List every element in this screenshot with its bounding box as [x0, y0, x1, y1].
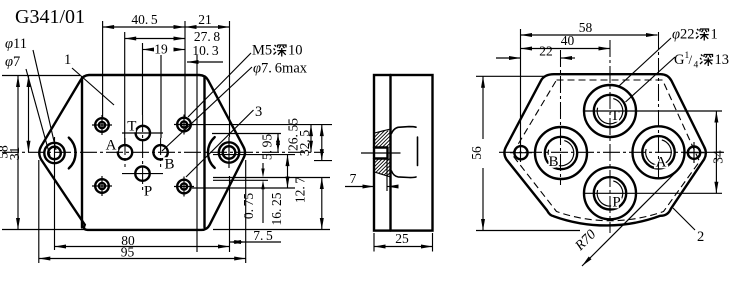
dimension 5.95 [260, 134, 281, 161]
svg-text:21: 21 [198, 12, 212, 27]
port T left view [136, 126, 150, 140]
dashed subplate outline [512, 80, 700, 221]
left view plate outline [39, 75, 245, 230]
right wing boss arc [208, 137, 215, 168]
break line upper [392, 127, 417, 134]
middle view pad line [389, 75, 391, 231]
dimension 22 right view [496, 44, 575, 61]
A vertical centerline [658, 32, 660, 182]
P port horizontal centerline [122, 173, 163, 175]
right wing mounting hole [219, 142, 239, 162]
pad left edge [81, 78, 83, 228]
svg-text:34: 34 [711, 150, 726, 164]
extension line bottom edge left [2, 229, 84, 231]
svg-text:B: B [548, 154, 558, 170]
svg-text:3: 3 [255, 104, 262, 120]
port B right view [535, 127, 587, 179]
break line lower [392, 171, 417, 178]
left wing boss arc [69, 138, 76, 169]
middle view section boundaries [375, 129, 391, 177]
svg-text:7: 7 [350, 171, 357, 186]
svg-text:M5: M5 [252, 43, 272, 59]
port A left view [118, 145, 132, 159]
vertical centerline T-P [142, 115, 144, 190]
dimension 0.75 [241, 163, 265, 223]
svg-text:12. 7: 12. 7 [293, 177, 308, 204]
dimension 19 [143, 42, 186, 57]
svg-text:31: 31 [7, 147, 22, 161]
bolt hole bottom-left [92, 176, 112, 196]
wing hole vertical centerline left [54, 137, 56, 250]
svg-text:A: A [656, 155, 667, 171]
dimension 80 [55, 233, 230, 249]
svg-text:G341/01: G341/01 [15, 6, 85, 28]
svg-text:A: A [106, 138, 117, 154]
svg-text:φ11: φ11 [5, 36, 27, 52]
svg-text:T: T [610, 108, 619, 124]
svg-text:G: G [674, 52, 685, 68]
svg-text:5. 95: 5. 95 [260, 134, 275, 161]
small hole left right-view [510, 146, 532, 159]
middle view centerline [361, 152, 401, 154]
dimension 25 [374, 231, 433, 252]
right view horizontal centerline [499, 151, 726, 153]
dimension 58 right view [521, 20, 658, 37]
svg-text:27. 8: 27. 8 [194, 29, 221, 44]
B vertical centerline [560, 50, 562, 185]
dimension 12.7 [293, 177, 324, 230]
dimension 21 [185, 12, 230, 29]
break line vertical [417, 137, 419, 166]
B port vertical centerline [160, 138, 162, 167]
right view vertical centerline T-P [609, 40, 611, 233]
port P left view [135, 166, 149, 180]
T horizontal centerline [585, 110, 722, 112]
svg-text:25: 25 [395, 231, 409, 246]
svg-text:56: 56 [469, 146, 484, 160]
dimension 40 right view [521, 33, 611, 51]
svg-text:40: 40 [561, 33, 575, 48]
port T right view [584, 85, 636, 137]
svg-text:58: 58 [579, 20, 593, 35]
dimension 27.8 [125, 29, 221, 44]
label M5 shen 10 [188, 43, 303, 118]
dimension 95 [39, 245, 246, 261]
extension line top edge left [2, 75, 80, 77]
port letters right view [548, 108, 666, 211]
svg-text:13: 13 [715, 52, 730, 68]
title G341/01 [15, 6, 85, 28]
svg-text:2: 2 [697, 229, 704, 245]
small hole right right-view [683, 142, 705, 163]
svg-text:1: 1 [711, 27, 718, 43]
extension lines right dim stack [192, 125, 332, 230]
balloon 2 [673, 208, 704, 245]
balloon 1 [64, 52, 114, 105]
bolt hole top-left [92, 115, 112, 135]
T port horizontal centerline [122, 132, 163, 134]
svg-text:1: 1 [64, 52, 71, 68]
extension lines bottom dims [39, 160, 246, 263]
dimension 16.25 [269, 155, 290, 226]
svg-text:40. 5: 40. 5 [131, 12, 158, 27]
svg-text:10. 3: 10. 3 [192, 43, 219, 58]
middle view port hole lines [374, 148, 388, 159]
wing hole vertical centerline right [228, 137, 230, 168]
hatching lower [361, 158, 412, 177]
svg-text:7. 5: 7. 5 [253, 228, 273, 243]
dimension 26.55 [286, 118, 314, 153]
svg-text:10: 10 [288, 43, 303, 59]
bolt hole top-right [174, 115, 194, 135]
dimension 58 left view [0, 76, 20, 230]
svg-text:95: 95 [121, 245, 135, 260]
svg-text:/: / [689, 52, 693, 67]
dimension 10.3 [187, 43, 223, 64]
label phi7 [5, 54, 50, 156]
svg-text:19: 19 [154, 42, 168, 57]
svg-text:φ7. 6max: φ7. 6max [253, 61, 308, 77]
hatching upper [361, 131, 410, 148]
svg-text:4: 4 [694, 61, 699, 71]
dimension 40.5 [103, 12, 185, 29]
port B left view [153, 145, 167, 159]
P horizontal centerline [585, 192, 722, 194]
svg-text:32. 5: 32. 5 [297, 130, 312, 157]
dimension 34 [711, 111, 726, 193]
label G 1/4 shen 13 [626, 51, 730, 102]
svg-text:0. 75: 0. 75 [241, 193, 256, 220]
extension line x197 [196, 55, 198, 252]
A port vertical centerline [124, 138, 126, 167]
right view hexagon outline [504, 74, 705, 225]
bolt hole bottom-right [174, 177, 194, 197]
label phi11 [5, 36, 56, 150]
R70 leader [572, 172, 676, 266]
left wing mounting hole [44, 143, 64, 163]
dimension 31 [7, 76, 31, 161]
svg-text:22: 22 [539, 44, 553, 59]
dimension 32.5 [297, 125, 324, 161]
label phi7.&#8239;6max [162, 61, 308, 152]
label phi22 shen 1 [619, 27, 718, 87]
svg-text:T: T [127, 119, 136, 135]
left small hole vertical line [520, 29, 522, 162]
main horizontal centerline left view [2, 151, 324, 153]
extension lines top dims [103, 21, 230, 145]
balloon 3 [186, 104, 262, 177]
svg-text:16. 25: 16. 25 [269, 192, 284, 225]
port labels TABP left view [106, 119, 175, 200]
middle view outline [374, 75, 433, 231]
dimension 7 [345, 159, 399, 192]
svg-text:P: P [612, 195, 620, 211]
port P right view [584, 167, 636, 219]
pad right edge [203, 78, 205, 228]
svg-text:φ7: φ7 [5, 54, 20, 70]
svg-text:B: B [164, 157, 174, 173]
svg-text:φ22: φ22 [672, 27, 695, 43]
dimension 56 [469, 76, 580, 230]
svg-text:P: P [144, 184, 152, 200]
port A right view [633, 126, 685, 178]
dimension 7.5 [230, 228, 282, 244]
